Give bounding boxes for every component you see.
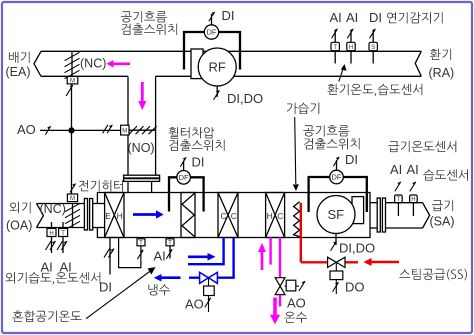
wire DI electric heater	[104, 238, 114, 275]
signal slash sensor H SA	[410, 182, 416, 192]
duct SA	[386, 203, 423, 228]
label OA humidity temp sensor korean	[6, 272, 101, 284]
label AI AI supply	[390, 162, 419, 177]
svg-text:DF: DF	[179, 173, 189, 182]
label airflow switch SF korean	[303, 125, 359, 149]
svg-text:M: M	[70, 196, 75, 202]
svg-text:(NC): (NC)	[40, 202, 66, 216]
duct OA to AHU	[93, 204, 105, 228]
pipe hot water supply	[269, 238, 271, 265]
duct EA bottom edge	[41, 75, 128, 77]
humidifier steam riser red	[300, 203, 302, 262]
flow arrow blue left	[154, 274, 181, 282]
signal double slash H OA	[46, 241, 56, 250]
signal slash below EA actuator	[66, 85, 73, 96]
signal slash sensor H RA	[347, 29, 353, 39]
wire AO horizontal	[40, 129, 121, 131]
label RA korean	[429, 49, 455, 80]
signal slash above OA actuator	[70, 184, 76, 193]
svg-text:(NC): (NC)	[80, 57, 106, 71]
pipe steam horizontal	[301, 261, 358, 263]
svg-text:DI: DI	[99, 280, 112, 295]
svg-text:H: H	[411, 197, 415, 203]
cooling coil section C-C	[218, 193, 238, 238]
node AO junction	[68, 127, 74, 133]
svg-text:AO: AO	[185, 297, 204, 312]
svg-text:(NO): (NO)	[128, 141, 155, 155]
svg-text:H: H	[267, 211, 273, 221]
sensor S smoke detector	[369, 30, 377, 64]
svg-text:DI: DI	[222, 8, 235, 23]
svg-text:(OA): (OA)	[6, 219, 32, 233]
sensor T supply air	[395, 195, 403, 216]
signal DI of RF flow switch	[209, 8, 235, 25]
signal DI,DO of fan RF	[214, 86, 264, 106]
label AI AI OA	[41, 260, 72, 275]
filter section	[181, 193, 195, 238]
valve actuator steam	[330, 262, 343, 294]
svg-text:AI: AI	[390, 162, 402, 177]
svg-text:T: T	[333, 45, 337, 51]
pipe chilled water supply	[188, 238, 224, 265]
sensor T duct probe 2 mixed air	[166, 238, 174, 259]
damper NO	[129, 126, 157, 134]
svg-text:AO: AO	[17, 122, 36, 137]
signal slash on AO wire left	[45, 126, 50, 134]
svg-text:AO: AO	[287, 296, 306, 311]
pointer arrow mixed air	[86, 267, 156, 319]
flow arrow blue right	[188, 253, 216, 261]
label EA korean	[6, 52, 31, 79]
svg-text:T: T	[61, 231, 65, 237]
label DI heater	[99, 280, 112, 295]
signal DI of filter DF	[180, 157, 186, 170]
pointer arrow RA sensors	[339, 64, 347, 82]
signal slash sensor T2	[166, 249, 172, 259]
svg-text:AI: AI	[154, 249, 166, 264]
svg-text:C: C	[221, 211, 227, 221]
damper EA (NC)	[65, 51, 80, 78]
duct RA bottom edge	[156, 75, 422, 77]
flex connector SA	[377, 198, 385, 232]
svg-text:AI: AI	[346, 10, 358, 25]
label smoke detector korean	[387, 12, 443, 23]
svg-text:DI: DI	[369, 10, 382, 25]
svg-text:SF: SF	[328, 207, 345, 222]
damper OA actuator M	[67, 194, 77, 202]
wire AO vertical	[71, 84, 73, 194]
duct OA bottom edge	[37, 227, 86, 229]
signal slash sensor T SA	[395, 182, 401, 192]
svg-text:DO: DO	[345, 280, 365, 295]
sensor H supply air	[410, 195, 418, 216]
label humidifier korean	[287, 103, 320, 115]
label AI mixed air	[154, 249, 166, 264]
label humidity sensor korean	[423, 169, 468, 181]
svg-text:C: C	[231, 211, 237, 221]
label OA korean	[6, 202, 32, 233]
svg-text:DI,DO: DI,DO	[339, 241, 375, 256]
duct EA left pointed end	[34, 51, 41, 76]
label AO chilled	[185, 297, 204, 312]
label electric heater korean	[79, 180, 123, 191]
label AO hot	[287, 296, 306, 311]
duct OA left notched end	[37, 204, 44, 228]
valve actuator chilled water	[204, 278, 215, 312]
flow arrow red left steam	[364, 258, 400, 266]
sensor T return air	[331, 30, 339, 64]
fan SF housing	[352, 197, 364, 224]
label SA korean	[430, 200, 455, 229]
valve chilled water	[200, 272, 218, 283]
label AO	[17, 122, 36, 137]
flow switch DF for RF	[204, 25, 218, 39]
svg-text:T: T	[397, 197, 401, 203]
svg-text:S: S	[371, 45, 375, 51]
duct SA stub	[370, 203, 377, 228]
fan RF impeller	[198, 48, 236, 86]
valve steam	[328, 257, 345, 267]
pipe hot water return lower	[279, 295, 281, 307]
label (NC) OA	[40, 202, 66, 216]
heating coil section H-C	[266, 193, 285, 238]
signal slash sensor S RA	[370, 29, 376, 39]
sensor H return air	[347, 30, 355, 64]
svg-text:(SA): (SA)	[430, 215, 455, 229]
pipe chilled water return	[217, 238, 233, 278]
duct vertical return branch right edge	[155, 76, 157, 175]
svg-text:DF: DF	[332, 173, 342, 182]
filter DF bracket	[169, 177, 204, 211]
sensor T duct probe 1	[137, 238, 145, 247]
svg-text:H: H	[49, 231, 53, 237]
svg-text:(RA): (RA)	[429, 66, 455, 80]
signal slash sensor T1	[137, 250, 143, 260]
signal slash DO steam	[333, 282, 339, 292]
damper OA (NC)	[65, 203, 80, 229]
label steam supply korean	[399, 269, 467, 281]
svg-text:DI: DI	[345, 152, 358, 167]
flow arrow magenta up hot water	[258, 243, 266, 270]
svg-text:M: M	[122, 129, 127, 135]
airflow arrow blue 1	[133, 210, 164, 219]
svg-text:AI: AI	[407, 162, 419, 177]
flange connection	[124, 175, 160, 181]
label DO steam	[345, 280, 365, 295]
svg-text:M: M	[70, 79, 75, 85]
signal DI,DO of fan SF	[331, 234, 376, 256]
svg-text:RF: RF	[209, 60, 226, 75]
sensor T outdoor air	[59, 222, 68, 253]
flow arrow magenta left at NC	[107, 60, 131, 68]
pipe into valve blue	[189, 277, 200, 279]
label DI filter switch	[192, 155, 205, 170]
signal slash AO hot	[296, 281, 305, 291]
flow arrow magenta down hot water	[270, 298, 280, 325]
fan SF impeller	[317, 196, 355, 234]
filter flow switch DF	[177, 171, 191, 185]
label RA temp humidity sensor	[328, 84, 423, 96]
svg-text:T: T	[139, 240, 143, 246]
pipe hot water return upper	[279, 238, 281, 278]
svg-text:AI: AI	[41, 260, 53, 275]
duct below flange	[128, 181, 152, 192]
label supply temp sensor korean	[388, 141, 456, 152]
flow switch sensing bracket RF	[184, 32, 240, 70]
svg-text:DF: DF	[207, 28, 217, 37]
svg-text:E: E	[105, 211, 111, 221]
humidifier spray zigzag	[294, 202, 300, 237]
sensor loop U below AHU	[119, 238, 141, 268]
flow arrow magenta down in duct	[138, 82, 146, 110]
duct EA-RA top edge	[41, 50, 421, 52]
svg-text:AI: AI	[60, 260, 72, 275]
duct vertical return branch left edge	[127, 76, 129, 175]
label airflow switch RF korean	[121, 11, 177, 35]
svg-text:T: T	[168, 240, 172, 246]
electric heater section E-H	[105, 193, 124, 238]
label (NC) EA	[80, 57, 106, 71]
signal double slash on AO wire right	[103, 125, 113, 134]
signal slash sensor T RA	[332, 29, 338, 39]
sensor H outdoor air	[47, 222, 56, 253]
flow switch DF for SF	[330, 170, 344, 184]
signal DI of SF flow switch	[333, 152, 358, 170]
label filter dp switch korean	[169, 127, 225, 151]
svg-text:(EA): (EA)	[6, 65, 31, 79]
flow switch sensing bracket SF	[309, 177, 367, 212]
signal slash AO chilled	[205, 298, 211, 308]
svg-text:H: H	[117, 211, 123, 221]
duct SA right pointed end	[423, 203, 430, 228]
damper EA actuator M	[67, 77, 78, 85]
svg-text:DI: DI	[192, 155, 205, 170]
label (NO)	[128, 141, 155, 155]
label mixed air temp korean	[12, 311, 81, 323]
duct RA right notched end	[415, 51, 421, 76]
fan RF housing	[191, 49, 203, 79]
damper NO actuator M	[121, 125, 129, 135]
svg-text:H: H	[349, 45, 353, 51]
valve actuator hot water	[285, 280, 296, 291]
svg-text:AI: AI	[330, 10, 342, 25]
AHU casing	[97, 193, 370, 238]
pointer arrow humidifier	[293, 117, 299, 191]
label chilled water korean	[148, 284, 170, 295]
label hot water korean	[284, 312, 307, 323]
valve hot water	[275, 278, 285, 295]
label AI AI DI smoke	[330, 10, 383, 25]
duct OA top edge	[37, 203, 86, 205]
svg-text:C: C	[277, 211, 283, 221]
signal double slash T OA	[57, 241, 67, 250]
flex connector OA	[84, 199, 92, 231]
svg-text:DI,DO: DI,DO	[227, 91, 263, 106]
